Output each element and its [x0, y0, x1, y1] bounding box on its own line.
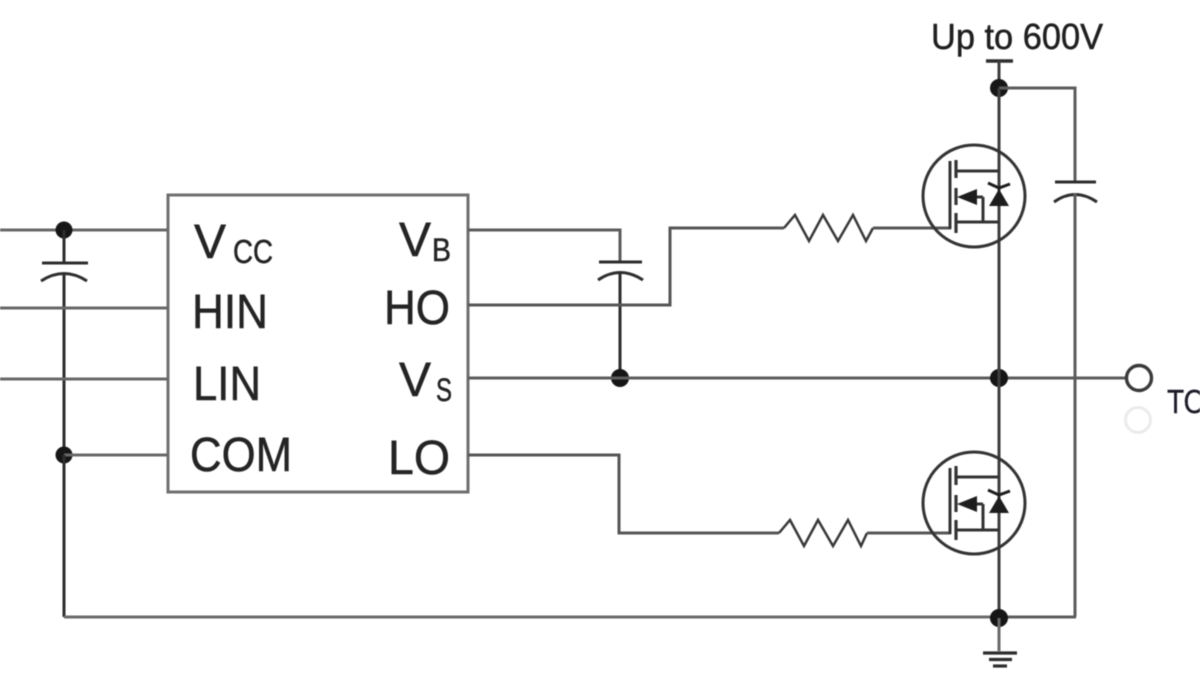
wire bottom ground rail [64, 616, 999, 619]
svg-text:COM: COM [190, 429, 292, 482]
node COM junction [56, 447, 73, 464]
pin label HO [384, 282, 450, 335]
wire supply node to C3 [999, 88, 1075, 181]
wire LO to gate resistor [468, 455, 779, 533]
pin label COM [190, 429, 292, 482]
node VCC junction [56, 222, 73, 239]
wire C3 to ground rail [999, 193, 1076, 617]
svg-text:TO LOAD: TO LOAD [1167, 384, 1200, 421]
pin label LO [388, 432, 450, 485]
wire VCC node to C1 [63, 230, 66, 262]
wire COM input [64, 454, 168, 457]
capacitor C3 bus decoupling [1054, 182, 1097, 202]
supply terminal bar [986, 59, 1013, 62]
svg-text:Up to 600V: Up to 600V [931, 16, 1103, 57]
wire half-bridge rail high side [998, 88, 1001, 378]
wire supply bar to node [998, 61, 1001, 88]
wire R2 to Q2 gate [867, 532, 951, 535]
node supply junction [990, 79, 1008, 97]
wire COM node down to ground rail [63, 455, 66, 617]
wire VB to bootstrap [468, 230, 620, 261]
wire HO to gate resistor [468, 228, 784, 305]
pin label LIN [193, 358, 261, 411]
wire R1 to Q1 gate [873, 227, 951, 230]
pin label VS [399, 354, 452, 408]
pin label HIN [192, 286, 268, 339]
terminal TO LOAD [1127, 366, 1152, 391]
pin label VCC [194, 216, 273, 270]
wire C1 to COM node [63, 273, 66, 455]
wire VS output [468, 377, 1125, 380]
svg-text:V: V [194, 216, 226, 269]
capacitor C2 bootstrap [598, 262, 643, 280]
wire VCC input [0, 229, 168, 232]
wire LIN input [0, 378, 168, 381]
transistor Q2 low-side MOSFET [923, 452, 1025, 554]
wire C2 to VS node [619, 272, 622, 378]
wire HIN input [0, 307, 168, 310]
transistor Q1 high-side MOSFET [923, 145, 1025, 247]
faint artifact circle [1126, 408, 1151, 433]
svg-text:HIN: HIN [192, 286, 268, 339]
svg-text:LO: LO [388, 432, 450, 485]
pin label VB [399, 214, 451, 268]
svg-text:B: B [432, 232, 451, 268]
node bootstrap VS junction [611, 369, 629, 387]
IC U1 half-bridge gate driver body [168, 195, 468, 492]
label TO LOAD [1167, 384, 1200, 421]
node VS half-bridge junction [990, 369, 1008, 387]
svg-text:HO: HO [384, 282, 450, 335]
svg-text:S: S [436, 372, 452, 408]
resistor R1 high-side gate [784, 215, 873, 241]
svg-text:CC: CC [233, 233, 273, 270]
node ground junction [990, 609, 1008, 627]
capacitor C1 VCC decoupling [41, 263, 88, 281]
label Up to 600V [931, 16, 1103, 57]
ground [983, 618, 1017, 666]
svg-text:V: V [399, 354, 431, 407]
wire half-bridge rail low side [998, 378, 1001, 618]
svg-text:LIN: LIN [193, 358, 261, 411]
svg-text:V: V [399, 214, 431, 267]
resistor R2 low-side gate [779, 520, 867, 546]
